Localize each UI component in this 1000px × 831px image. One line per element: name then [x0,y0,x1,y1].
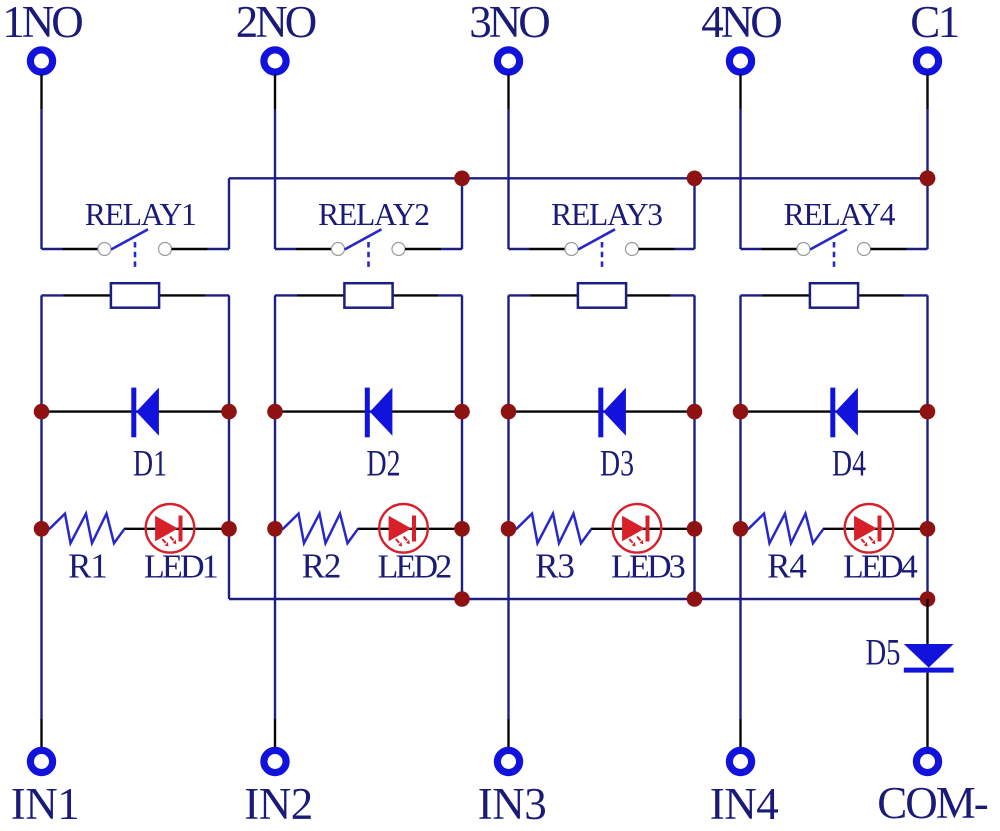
wire relay3 right contact lead [639,248,695,250]
junction diode D4 left [733,404,749,420]
wire bus to D5 [926,599,928,644]
svg-text:D5: D5 [866,633,901,674]
diode D1 [131,388,159,438]
svg-text:RELAY1: RELAY1 [85,197,196,232]
junction LED4 right [920,521,936,537]
wire 3NO stub [507,75,509,250]
LED LED3 [613,504,662,553]
wire relay1 riser to top bus [228,178,230,249]
junction bottom bus ch2 [454,591,470,607]
wire relay4 right contact lead [871,248,928,250]
junction R1 left [34,521,50,537]
junction R4 left [733,521,749,537]
wire channel 3 right rail [693,295,695,599]
junction R2 left [267,521,283,537]
resistor R1 [50,514,125,544]
relay RELAY3 switch [565,229,639,267]
svg-text:3NO: 3NO [469,0,549,47]
wire relay4 riser to top bus [926,178,928,249]
wire channel 4 right rail [926,295,928,599]
terminal IN1 [30,750,52,772]
wire 1NO stub [40,75,42,250]
wire relay1 coil leads [42,294,230,296]
junction bottom bus ch4 / D5 [920,591,936,607]
junction on top bus [687,171,703,187]
terminal IN4 [729,750,751,772]
svg-text:LED1: LED1 [144,549,217,586]
junction diode D2 right [454,404,470,420]
diode D5 [904,644,954,673]
svg-text:4NO: 4NO [701,0,781,47]
svg-text:R1: R1 [68,547,107,586]
wire relay3 riser to top bus [693,178,695,249]
terminal 3NO [497,50,519,72]
wire top bus (relay contacts to C1) [229,177,928,179]
wire relay4 left contact lead [741,248,798,250]
LED LED2 [379,504,428,553]
relay RELAY4 coil [810,283,858,308]
junction LED2 right [454,521,470,537]
wire channel 3 left rail [507,295,509,747]
svg-text:D3: D3 [600,444,634,485]
junction on top bus [920,171,936,187]
junction on top bus [454,171,470,187]
terminal 4NO [729,50,751,72]
diode D2 [365,388,393,438]
svg-text:2NO: 2NO [236,0,316,47]
wire relay3 coil leads [509,294,695,296]
terminal 1NO [30,50,52,72]
resistor R4 [749,514,824,544]
svg-text:LED2: LED2 [378,549,452,586]
relay RELAY3 coil [578,283,626,308]
junction diode D1 right [221,404,237,420]
svg-text:D1: D1 [133,444,167,485]
relay RELAY2 coil [344,283,392,308]
junction diode D1 left [34,404,50,420]
svg-text:R3: R3 [535,547,574,586]
terminal C1 [916,50,938,72]
resistor R3 [517,514,592,544]
junction diode D3 right [687,404,703,420]
svg-text:LED4: LED4 [843,549,918,586]
wire relay4 coil leads [741,294,928,296]
wire 4NO stub [739,75,741,250]
relay RELAY1 switch [98,229,172,267]
terminal IN3 [497,750,519,772]
svg-text:IN4: IN4 [710,779,778,829]
wire diode D4 row [741,410,928,412]
junction bottom bus ch3 [687,591,703,607]
junction R3 left [501,521,517,537]
LED LED4 [845,504,894,553]
svg-text:RELAY4: RELAY4 [784,197,896,232]
svg-text:IN2: IN2 [244,779,312,829]
junction diode D4 right [920,404,936,420]
wire D5 to COM- [926,673,928,748]
svg-text:R2: R2 [302,547,341,586]
wire relay1 right contact lead [172,248,230,250]
svg-text:D2: D2 [367,444,401,485]
resistor R2 [283,514,358,544]
svg-text:LED3: LED3 [611,549,685,586]
junction diode D3 left [501,404,517,420]
wire bottom bus (cathode common) [229,598,928,600]
relay RELAY4 switch [797,229,871,267]
diode D4 [830,388,858,438]
svg-text:IN1: IN1 [11,779,79,829]
svg-text:R4: R4 [767,547,806,586]
wire resistor/LED row [42,528,230,530]
wire channel 1 left rail [40,295,42,747]
wire diode D2 row [275,410,462,412]
wire resistor/LED row [741,528,928,530]
wire resistor/LED row [509,528,695,530]
terminal COM- [916,750,938,772]
wire relay2 left contact lead [275,248,332,250]
junction diode D2 left [267,404,283,420]
junction LED1 right [221,521,237,537]
svg-text:RELAY2: RELAY2 [318,197,429,232]
wire 2NO stub [274,75,276,250]
wire channel 4 left rail [739,295,741,747]
svg-text:C1: C1 [910,0,958,47]
wire channel 2 right rail [461,295,463,599]
wire relay2 coil leads [275,294,462,296]
svg-text:D4: D4 [832,444,866,485]
wire channel 2 left rail [274,295,276,747]
wire diode D3 row [509,410,695,412]
svg-text:1NO: 1NO [2,0,82,47]
wire relay3 left contact lead [509,248,566,250]
svg-text:RELAY3: RELAY3 [551,197,662,232]
wire resistor/LED row [275,528,462,530]
LED LED1 [146,504,195,553]
terminal IN2 [264,750,286,772]
svg-text:COM-: COM- [877,778,988,828]
svg-text:IN3: IN3 [478,779,546,829]
relay RELAY2 switch [332,229,406,267]
wire relay2 right contact lead [405,248,462,250]
wire channel 1 right rail [228,295,230,599]
junction LED3 right [687,521,703,537]
junction C1 / top bus [920,171,936,187]
wire diode D1 row [42,410,230,412]
diode D3 [598,388,626,438]
relay RELAY1 coil [111,283,159,308]
wire relay2 riser to top bus [461,178,463,249]
terminal 2NO [264,50,286,72]
wire C1 stub [926,75,928,179]
wire relay1 left contact lead [42,248,99,250]
